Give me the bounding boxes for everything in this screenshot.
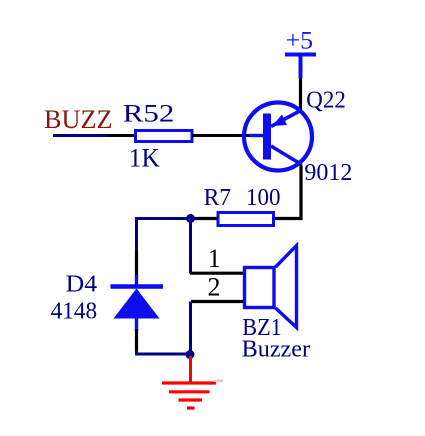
svg-text:1K: 1K: [129, 143, 160, 172]
svg-text:4148: 4148: [51, 299, 98, 325]
svg-text:D4: D4: [66, 271, 98, 297]
svg-text:R52: R52: [123, 100, 175, 127]
svg-text:BUZZ: BUZZ: [44, 105, 113, 134]
svg-text:+5: +5: [286, 28, 314, 55]
svg-text:Buzzer: Buzzer: [242, 336, 311, 362]
svg-text:2: 2: [208, 272, 221, 301]
svg-text:1: 1: [208, 244, 221, 273]
svg-text:R7: R7: [204, 185, 232, 211]
svg-text:Q22: Q22: [306, 88, 346, 114]
svg-text:100: 100: [246, 185, 281, 211]
svg-text:9012: 9012: [304, 160, 352, 186]
